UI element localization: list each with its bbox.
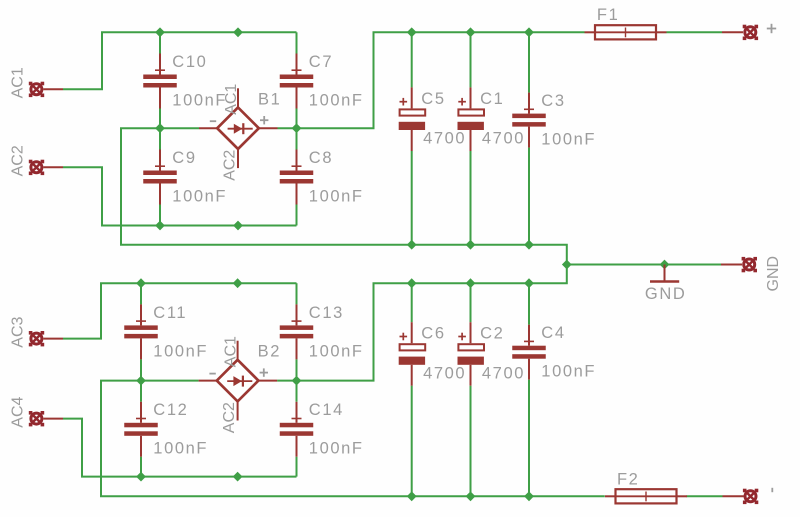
svg-text:100nF: 100nF (153, 342, 208, 360)
svg-text:C9: C9 (172, 149, 196, 167)
capacitor C13 (280, 283, 314, 380)
B2 pin AC2 (bottom) (237, 401, 239, 421)
capacitor C4 (512, 283, 546, 496)
svg-text:C8: C8 (309, 149, 333, 167)
svg-text:B1: B1 (258, 90, 281, 108)
junction V- rail / C11-C12 (136, 376, 146, 386)
junction GND2 rail / C13-C14 (292, 376, 302, 386)
svg-text:100nF: 100nF (541, 363, 596, 381)
junction V+ rail / C1 (466, 27, 476, 37)
junction V- rail / C6 (407, 491, 417, 501)
pad + pin stub (722, 31, 743, 33)
B1 pin AC1 (top) (237, 88, 239, 108)
svg-text:4700: 4700 (482, 130, 525, 148)
junction V- rail / C2 (466, 491, 476, 501)
svg-text:C13: C13 (309, 304, 344, 322)
capacitor C12 (124, 381, 158, 477)
svg-text:AC2: AC2 (221, 402, 238, 433)
pad AC3 (29, 331, 44, 346)
svg-text:AC1: AC1 (223, 84, 240, 115)
svg-text:C14: C14 (309, 401, 344, 419)
svg-text:C4: C4 (541, 324, 565, 342)
svg-text:100nF: 100nF (172, 187, 227, 205)
svg-text:AC2: AC2 (9, 145, 26, 176)
junction AC4 rail / C12 (136, 472, 146, 482)
pad AC1 (29, 82, 44, 97)
svg-text:100nF: 100nF (309, 187, 364, 205)
svg-text:C11: C11 (153, 304, 187, 322)
svg-text:C2: C2 (480, 325, 504, 343)
pad - pin stub (723, 495, 744, 497)
capacitor C6 (polarized) (399, 283, 426, 496)
svg-text:100nF: 100nF (172, 91, 227, 109)
capacitor C11 (124, 283, 158, 380)
wire net GND2: B2 plus to GND bus (277, 265, 567, 381)
svg-text:AC3: AC3 (9, 316, 26, 347)
B1 pin label + (260, 116, 268, 124)
junction V+ rail / C5 (407, 27, 417, 37)
capacitor C2 (polarized) (458, 283, 485, 496)
svg-text:GND: GND (765, 256, 782, 292)
capacitor C3 (512, 32, 546, 244)
svg-text:C12: C12 (153, 401, 188, 419)
wire net V- after fuse F2 (687, 495, 723, 497)
junction AC3 rail / C11 (136, 278, 146, 288)
junction AC2 rail / B1 AC2 pin (233, 221, 243, 231)
junction GND2 rail / C2 (466, 278, 476, 288)
pad + output (743, 25, 758, 40)
B1 pin AC2 (bottom) (237, 149, 239, 169)
junction GND rail / C1 (466, 240, 476, 250)
svg-text:C10: C10 (172, 53, 207, 71)
label net - (771, 488, 773, 492)
B2 pin label - (209, 373, 215, 375)
wire net AC2: pad AC2 to bottom rail (C9, B1, C8) (63, 167, 297, 225)
svg-text:100nF: 100nF (309, 91, 364, 109)
wire net AC4: pad AC4 to rail (C12, B2, C14) (63, 419, 297, 477)
svg-text:4700: 4700 (482, 364, 525, 382)
capacitor C8 (280, 128, 314, 225)
B2 pin + (right) (258, 380, 277, 382)
svg-text:AC1: AC1 (9, 67, 26, 98)
B2 pin AC1 (top) (237, 341, 239, 361)
svg-text:100nF: 100nF (153, 440, 208, 458)
svg-text:4700: 4700 (423, 364, 466, 382)
B2 pin label + (260, 368, 268, 376)
junction minus rail / C10-C9 (155, 123, 165, 133)
svg-text:C5: C5 (421, 90, 445, 108)
B1 pin label - (210, 120, 216, 122)
svg-text:C1: C1 (480, 90, 504, 108)
svg-text:100nF: 100nF (309, 440, 364, 458)
pad AC2 pin stub (43, 166, 63, 168)
pad AC1 pin stub (43, 88, 63, 90)
junction GND rail / C3 (524, 240, 534, 250)
pad AC3 pin stub (43, 338, 63, 340)
capacitor C14 (280, 381, 314, 477)
B1 pin + (right) (258, 127, 277, 129)
junction V- rail / C4 (524, 491, 534, 501)
wire net AC1: pad AC1 to top rail (C10, B1, C7) (63, 32, 297, 89)
wire net AC3: pad AC3 to rail (C11, B2, C13) (63, 283, 297, 338)
wire net V-: B2 minus down to bottom rail (101, 381, 605, 497)
label net + (767, 24, 776, 33)
svg-text:C7: C7 (309, 53, 333, 71)
B2 pin - (left) (199, 380, 218, 382)
junction AC1 rail / C10 (155, 27, 165, 37)
junction GND bus corner (562, 260, 572, 270)
junction plus rail / C7-C8 (292, 123, 302, 133)
junction GND2 rail / C4 (524, 278, 534, 288)
capacitor C9 (143, 128, 177, 225)
svg-text:C3: C3 (541, 92, 565, 110)
pad GND output (742, 257, 757, 272)
wire net GND1: B1 minus to GND bus (121, 128, 567, 264)
pad GND pin stub (721, 264, 742, 266)
fuse F1 (585, 25, 667, 39)
svg-text:AC2: AC2 (222, 150, 239, 181)
capacitor C1 (polarized) (458, 32, 485, 244)
svg-text:C6: C6 (421, 325, 445, 343)
ground symbol GND (650, 265, 679, 282)
wire net V+ after fuse F1 (667, 31, 723, 33)
svg-text:100nF: 100nF (541, 131, 596, 149)
junction AC2 rail / C9 (155, 221, 165, 231)
pad AC4 pin stub (43, 418, 63, 420)
pad AC4 (29, 411, 44, 426)
svg-text:GND: GND (645, 285, 686, 303)
svg-text:F2: F2 (617, 471, 639, 489)
capacitor C5 (polarized) (399, 32, 426, 244)
junction AC1 rail / B1 AC1 pin (233, 27, 243, 37)
bridge rectifier B2 (217, 360, 259, 402)
svg-text:F1: F1 (597, 6, 619, 24)
junction AC4 rail / B2 AC2 pin (233, 472, 243, 482)
svg-text:AC1: AC1 (223, 336, 240, 367)
junction GND rail / C5 (407, 240, 417, 250)
B1 pin - (left) (199, 127, 218, 129)
junction AC3 rail / B2 AC1 pin (233, 278, 243, 288)
wire net GND to pad (567, 264, 721, 266)
capacitor C10 (143, 32, 177, 128)
junction GND symbol tap (660, 260, 670, 270)
junction GND2 rail / C6 (407, 278, 417, 288)
pad AC2 (29, 160, 44, 175)
fuse F2 (605, 489, 687, 503)
svg-text:100nF: 100nF (309, 342, 364, 360)
svg-text:4700: 4700 (423, 130, 466, 148)
svg-text:AC4: AC4 (9, 396, 26, 427)
wire net V+: B1 plus up to top right rail (278, 32, 585, 128)
svg-text:B2: B2 (258, 343, 281, 361)
pad - output (743, 489, 758, 504)
bridge rectifier B1 (217, 107, 259, 149)
capacitor C7 (280, 32, 314, 128)
junction V+ rail / C3 (524, 27, 534, 37)
